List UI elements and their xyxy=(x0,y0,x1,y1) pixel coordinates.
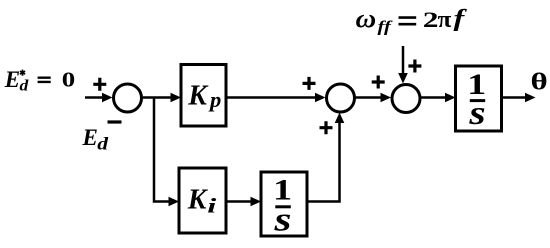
summing junction S1 xyxy=(114,84,142,112)
svg-text:ff: ff xyxy=(378,18,394,35)
svg-text:2: 2 xyxy=(423,7,439,32)
svg-text:p: p xyxy=(208,87,221,112)
svg-text:s: s xyxy=(273,201,291,238)
wire lower integrator output up to S2 xyxy=(307,113,344,202)
node Ed* reference input label xyxy=(4,67,75,94)
wire input arrow into summing junction S1 xyxy=(85,93,113,103)
svg-text:K: K xyxy=(187,81,209,112)
wire S3 output to integrator block xyxy=(420,93,456,103)
svg-text:i: i xyxy=(207,194,217,217)
plus sign at S2 lower input xyxy=(320,121,333,134)
wire branch down to Ki path xyxy=(154,98,179,207)
svg-text:π: π xyxy=(438,6,452,33)
wire output arrow xyxy=(502,93,536,103)
svg-text:E: E xyxy=(82,125,98,150)
svg-text:d: d xyxy=(20,76,29,94)
plus sign at S3 top input xyxy=(408,60,421,73)
node Ed feedback label xyxy=(82,125,110,154)
wire Kp output to summing junction S2 xyxy=(226,93,326,103)
wire S1 output to Kp with branch junction xyxy=(142,93,182,103)
svg-text:s: s xyxy=(468,95,485,132)
svg-text:ω: ω xyxy=(356,4,377,33)
plus sign at S1 input xyxy=(93,78,106,91)
node omega_ff feedforward label xyxy=(356,4,468,35)
wire S2 output to summing junction S3 xyxy=(355,93,392,103)
svg-text:K: K xyxy=(187,185,209,216)
block 1/s integrator (upper right) xyxy=(456,66,502,132)
wire Ki output to integrator block xyxy=(226,197,261,207)
block 1/s integrator (lower) xyxy=(261,172,307,238)
plus sign at S3 left input xyxy=(372,76,385,89)
svg-text:d: d xyxy=(97,134,109,154)
block Kp xyxy=(181,65,226,127)
block Ki xyxy=(179,168,226,233)
wire feedforward arrow down into S3 xyxy=(398,46,408,84)
svg-text:E: E xyxy=(4,67,20,92)
plus sign at S2 upper input xyxy=(303,77,316,90)
minus sign at S1 feedback input xyxy=(108,120,122,123)
svg-text:0: 0 xyxy=(62,68,75,92)
svg-text:θ: θ xyxy=(531,68,548,95)
summing junction S2 xyxy=(327,84,355,112)
svg-text:f: f xyxy=(454,6,468,32)
summing junction S3 xyxy=(392,85,420,113)
